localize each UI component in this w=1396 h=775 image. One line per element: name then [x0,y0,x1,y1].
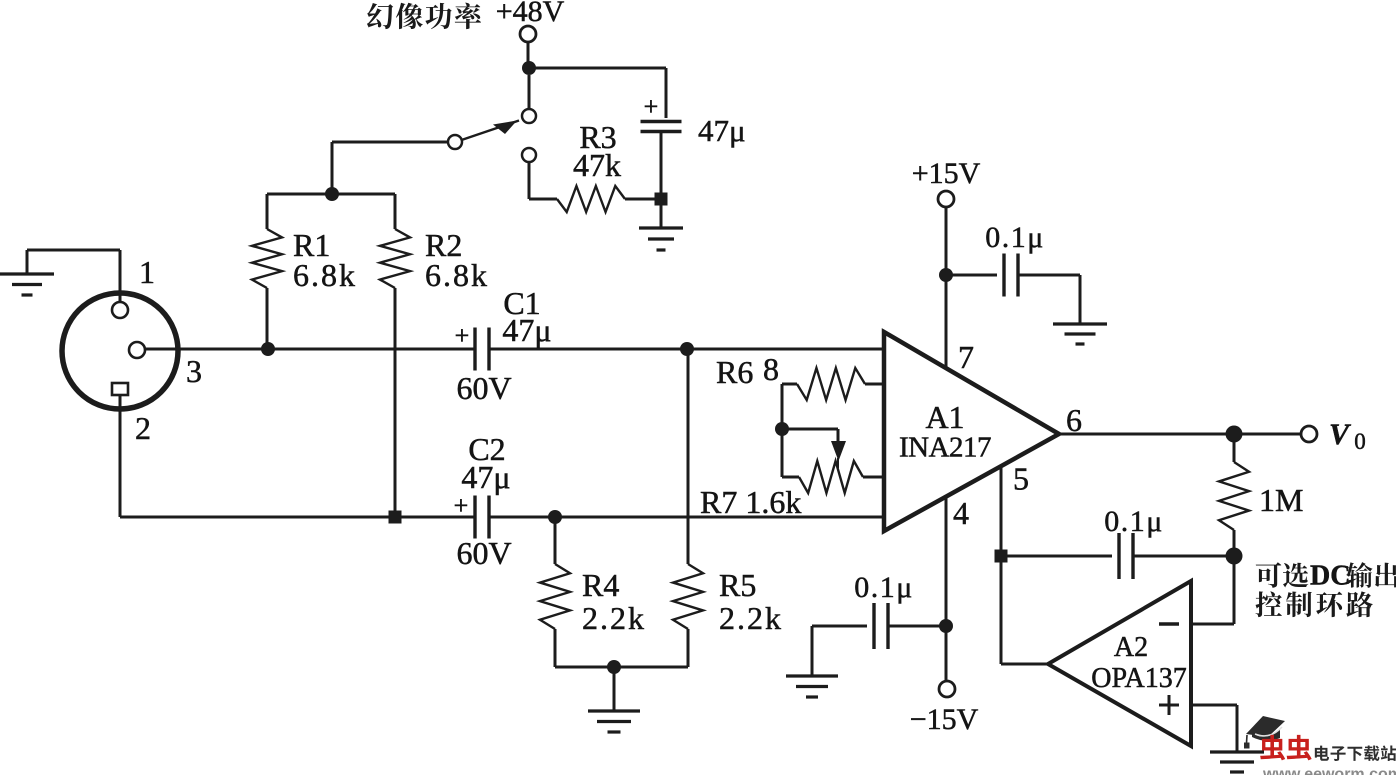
svg-text:+15V: +15V [912,157,981,190]
svg-text:2.2k: 2.2k [719,600,783,636]
svg-text:2.2k: 2.2k [582,600,646,636]
svg-text:8: 8 [763,351,779,387]
svg-text:R7 1.6k: R7 1.6k [700,484,801,520]
svg-text:www.eeworm.com: www.eeworm.com [1262,766,1396,775]
svg-text:47k: 47k [573,147,621,183]
svg-text:0: 0 [1354,429,1366,454]
svg-text:6.8k: 6.8k [293,257,357,293]
svg-text:60V: 60V [456,535,511,571]
svg-text:+: + [455,321,470,350]
svg-text:0.1μ: 0.1μ [1104,505,1164,538]
svg-text:V: V [1329,418,1352,451]
svg-text:4: 4 [953,495,969,531]
svg-text:DC: DC [1310,561,1350,592]
svg-text:1M: 1M [1259,482,1303,518]
svg-text:R6: R6 [716,354,753,390]
svg-text:OPA137: OPA137 [1091,663,1186,694]
svg-text:2: 2 [135,410,151,446]
svg-text:A2: A2 [1114,632,1148,663]
svg-text:3: 3 [186,353,202,389]
svg-text:5: 5 [1013,461,1029,497]
svg-text:47μ: 47μ [502,312,551,348]
svg-text:7: 7 [958,339,974,375]
svg-text:47μ: 47μ [698,113,746,148]
svg-text:0.1μ: 0.1μ [985,221,1045,254]
svg-text:A1: A1 [925,399,964,435]
svg-text:1: 1 [139,254,155,290]
svg-text:−15V: −15V [910,703,979,736]
svg-text:+: + [454,491,469,520]
svg-text:0.1μ: 0.1μ [854,571,914,604]
svg-text:R5: R5 [719,567,756,603]
svg-text:R4: R4 [582,567,619,603]
svg-text:47μ: 47μ [461,459,510,495]
svg-text:6.8k: 6.8k [425,257,489,293]
svg-text:INA217: INA217 [899,432,991,464]
svg-text:60V: 60V [456,370,511,406]
svg-text:+: + [644,92,659,121]
svg-text:+48V: +48V [496,0,565,28]
